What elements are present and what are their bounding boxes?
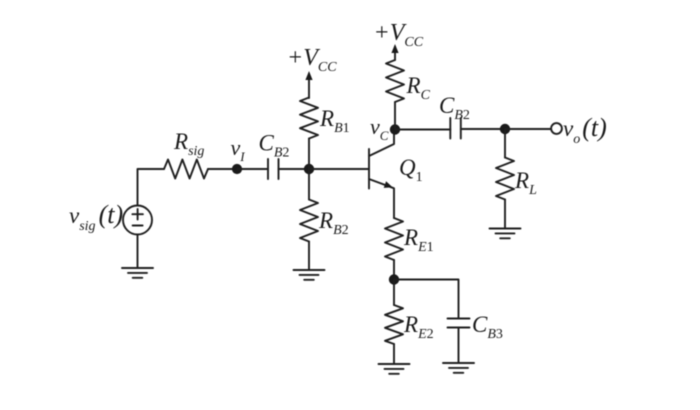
resistor R_L bbox=[496, 158, 514, 200]
wire output node to terminal bbox=[505, 128, 551, 130]
node base bbox=[304, 164, 314, 174]
source v_sig circle bbox=[123, 206, 152, 235]
resistor R_E1 bbox=[385, 218, 403, 260]
node output bbox=[500, 124, 510, 134]
node v_I bbox=[232, 164, 242, 174]
svg-text:Rsig: Rsig bbox=[173, 129, 204, 159]
svg-text:vo(t): vo(t) bbox=[563, 113, 607, 147]
svg-text:RE1: RE1 bbox=[403, 225, 434, 255]
wire source top to input line bbox=[138, 169, 165, 206]
svg-text:CB2: CB2 bbox=[439, 93, 470, 123]
wire base node down to R_B2 bbox=[308, 169, 310, 200]
wire R_E1 to emitter node bbox=[393, 260, 395, 280]
capacitor C_B2 output bbox=[450, 118, 461, 139]
resistor R_B1 bbox=[300, 98, 318, 139]
node v_C bbox=[390, 124, 400, 134]
resistor R_sig bbox=[164, 160, 208, 179]
ground under R_E2 bbox=[379, 364, 410, 374]
wire R_B2 to ground bbox=[308, 242, 310, 271]
resistor R_E2 bbox=[385, 305, 403, 344]
svg-text:+VCC: +VCC bbox=[374, 20, 424, 50]
svg-text:vsig(t): vsig(t) bbox=[69, 200, 123, 234]
ground under C_B3 bbox=[443, 363, 474, 373]
wire R_L to ground bbox=[504, 200, 506, 229]
wire R_sig to v_I node bbox=[208, 168, 237, 170]
svg-text:RB1: RB1 bbox=[319, 106, 350, 136]
wire R_B1 to VCC arrow bbox=[308, 74, 310, 98]
wire output node down to R_L bbox=[504, 129, 506, 158]
source plus sign bbox=[132, 209, 143, 220]
resistor R_B2 bbox=[300, 200, 318, 242]
svg-text:vI: vI bbox=[231, 135, 246, 164]
wire R_E2 to ground bbox=[393, 344, 395, 364]
svg-text:RC: RC bbox=[406, 73, 431, 103]
capacitor C_B2 (input) bbox=[268, 159, 279, 179]
source minus sign bbox=[133, 225, 143, 227]
svg-text:RL: RL bbox=[514, 168, 537, 198]
transistor Q1 collector lead bbox=[369, 130, 394, 157]
VCC arrowhead over R_C bbox=[391, 44, 398, 53]
transistor Q1 emitter lead bbox=[369, 179, 394, 218]
svg-text:+VCC: +VCC bbox=[287, 45, 337, 75]
ground under source bbox=[122, 268, 153, 278]
ground under R_L bbox=[490, 229, 521, 239]
wire v_I to capacitor C_B2 bbox=[237, 168, 268, 170]
svg-text:CB3: CB3 bbox=[472, 312, 503, 342]
wire base node up to R_B1 bbox=[308, 139, 310, 170]
svg-text:CB2: CB2 bbox=[259, 131, 290, 161]
transistor Q1 emitter arrowhead bbox=[384, 181, 393, 188]
terminal v_o open circle bbox=[551, 123, 562, 134]
wire capacitor to output node bbox=[461, 128, 505, 130]
VCC arrowhead over R_B1 bbox=[305, 71, 312, 80]
resistor R_C bbox=[386, 60, 404, 102]
wire R_C to VCC arrow bbox=[394, 47, 396, 60]
wire v_C up to R_C bbox=[394, 102, 396, 130]
wire emitter node to C_B3 branch bbox=[394, 280, 459, 319]
capacitor C_B3 bbox=[448, 319, 470, 328]
svg-text:Q1: Q1 bbox=[399, 155, 423, 185]
wire base node to transistor bbox=[309, 168, 369, 170]
node emitter bbox=[389, 274, 399, 284]
transistor Q1 base bar bbox=[368, 149, 370, 189]
ground under R_B2 bbox=[294, 270, 325, 280]
wire emitter node down to R_E2 bbox=[393, 280, 395, 306]
wire capacitor to base node bbox=[279, 168, 310, 170]
svg-text:vC: vC bbox=[370, 114, 389, 143]
wire source bottom to ground bbox=[137, 235, 139, 269]
svg-text:RE2: RE2 bbox=[403, 312, 434, 342]
wire C_B3 to ground bbox=[458, 328, 460, 364]
wire v_C to output capacitor bbox=[395, 129, 450, 131]
svg-text:RB2: RB2 bbox=[318, 208, 349, 238]
